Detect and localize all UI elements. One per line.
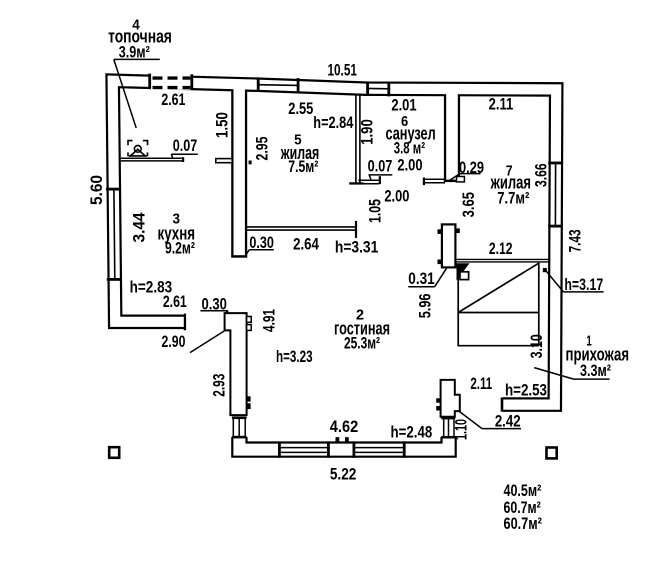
stair start marker (457, 263, 470, 280)
svg-text:0.30: 0.30 (202, 295, 227, 313)
window W1 (top wall, room 5) (257, 77, 300, 92)
svg-text:2.11: 2.11 (470, 375, 492, 393)
dashed opening clear (151, 72, 191, 90)
svg-text:7.7м²: 7.7м² (497, 190, 529, 208)
marker square left (109, 447, 119, 458)
svg-text:2.61: 2.61 (163, 293, 187, 311)
label underline 3.3m2 (574, 378, 610, 380)
stair mid landing line (458, 312, 539, 314)
bottom wall casing (239, 437, 448, 450)
svg-text:0.30: 0.30 (249, 234, 274, 252)
boiler symbol (128, 141, 148, 157)
pier west (0.30 wall, living room west) (225, 313, 247, 415)
svg-text:2.61: 2.61 (161, 91, 185, 109)
svg-text:25.3м²: 25.3м² (344, 334, 380, 352)
stair bottom edge (458, 345, 539, 347)
svg-text:2.55: 2.55 (288, 100, 313, 118)
wc stub 0.07 (358, 176, 381, 184)
wall V1 bottom cap (231, 255, 247, 258)
stair rail double line (456, 258, 548, 260)
marker square right (547, 448, 557, 459)
window W3 (right wall, room 7) (548, 162, 563, 228)
svg-text:3.9м²: 3.9м² (119, 43, 150, 61)
svg-text:0.07: 0.07 (368, 158, 393, 176)
svg-text:7.43: 7.43 (567, 229, 585, 252)
partition P1 end tick (355, 221, 357, 238)
label underline 0.07 kitchen (171, 153, 198, 155)
svg-text:3.10: 3.10 (528, 334, 546, 358)
svg-text:3.65: 3.65 (460, 192, 478, 217)
label underline 0.29 (460, 173, 481, 175)
svg-text:60.7м²: 60.7м² (504, 515, 543, 533)
svg-text:3.3м²: 3.3м² (580, 362, 611, 380)
svg-text:1.10: 1.10 (453, 419, 471, 440)
label underline 0.30 living (200, 310, 228, 312)
label underline 0.30 kitchen (249, 249, 273, 251)
label underline h=3.17 (563, 291, 603, 293)
partition P2 (kitchen/boiler room) (121, 157, 184, 162)
wall V1 casing (kitchen/room5 divider) (231, 84, 247, 256)
label underline 2.42 (482, 428, 521, 430)
window W5 (bottom wall left) (278, 441, 330, 457)
partition P1 (room5 south) (247, 227, 357, 230)
svg-text:4.91: 4.91 (261, 309, 279, 332)
partition wc south (424, 179, 445, 183)
svg-text:h=2.53: h=2.53 (505, 382, 547, 400)
window W4 (left wall, kitchen) (106, 188, 122, 281)
partition V3 bottom tick (349, 182, 363, 184)
svg-text:0.29: 0.29 (459, 159, 484, 177)
partition wc south left cap (423, 178, 425, 186)
label underline 0.31 (408, 286, 434, 288)
pier west upper teeth (247, 317, 252, 323)
wall V1 core (233, 84, 244, 256)
porch door ticks on bottom wall (336, 437, 340, 441)
svg-text:3.8 м²: 3.8 м² (394, 140, 426, 158)
svg-text:3.44: 3.44 (131, 213, 149, 243)
pier stairs (0.31 wall) (442, 224, 456, 267)
svg-text:2.00: 2.00 (397, 156, 422, 174)
wall notch at stair top (543, 268, 547, 272)
dashed opening left cap (148, 74, 151, 88)
stair diagonal (458, 263, 539, 312)
svg-text:2.64: 2.64 (293, 236, 319, 254)
svg-text:40.5м²: 40.5м² (504, 482, 542, 500)
svg-text:5.96: 5.96 (417, 294, 435, 319)
wall V2 casing (wc/room7 divider) (444, 92, 460, 181)
pier stairs teeth (438, 229, 443, 234)
partition V3 (wc west) (356, 94, 360, 185)
svg-text:2.42: 2.42 (495, 413, 521, 431)
outer wall casing (left+top+right+hall-bottom) (113, 81, 557, 405)
svg-text:2.00: 2.00 (384, 187, 409, 205)
stair left edge (457, 264, 459, 347)
svg-text:2.93: 2.93 (211, 374, 229, 397)
label leader 2.90 (190, 331, 225, 353)
svg-text:0.07: 0.07 (173, 137, 198, 155)
svg-text:5.60: 5.60 (88, 175, 106, 205)
pier hall teeth (436, 398, 441, 402)
dashed opening right cap (190, 74, 193, 88)
svg-text:9.2м²: 9.2м² (165, 240, 195, 258)
svg-text:2.11: 2.11 (489, 96, 514, 114)
window W6 (bottom wall right) (353, 441, 406, 457)
svg-text:0.31: 0.31 (408, 270, 434, 288)
label underline 0.07 wc (369, 174, 393, 176)
svg-text:1.90: 1.90 (359, 119, 377, 145)
svg-text:2.01: 2.01 (391, 97, 416, 115)
svg-text:h=2.84: h=2.84 (313, 114, 353, 132)
hall wall end cap (501, 398, 504, 412)
pier hall door (south) (441, 380, 460, 417)
room5 tick on V1 (249, 161, 252, 165)
svg-text:10.51: 10.51 (327, 61, 357, 79)
svg-text:h=3.23: h=3.23 (276, 348, 313, 366)
bottom wall core (239, 437, 448, 450)
svg-text:h=2.48: h=2.48 (391, 424, 433, 442)
window W8 (east, below hall pier) (441, 417, 455, 439)
svg-text:h=3.17: h=3.17 (564, 276, 603, 294)
svg-text:2.12: 2.12 (489, 240, 513, 258)
svg-text:h=3.31: h=3.31 (335, 238, 378, 256)
window W2 (top wall, wc) (366, 81, 390, 96)
svg-text:3.66: 3.66 (533, 163, 551, 187)
kitchen stub at V1 (216, 159, 232, 163)
svg-text:2.90: 2.90 (162, 333, 186, 351)
svg-text:5.22: 5.22 (330, 466, 357, 484)
svg-text:2.95: 2.95 (254, 137, 272, 161)
outer wall core (113, 81, 557, 405)
window W7 (west wall below pier) (232, 417, 247, 439)
wall V2 bottom cap (444, 180, 460, 183)
svg-text:1.05: 1.05 (367, 199, 385, 223)
svg-text:7.5м²: 7.5м² (288, 158, 318, 176)
kitchen south stub end cap (184, 314, 186, 331)
dashed opening (2.61) dashes (153, 76, 191, 89)
wall V2 bottom tooth (457, 177, 465, 182)
stair right edge (538, 263, 540, 346)
svg-text:1.50: 1.50 (214, 112, 232, 138)
label leader 3.9m2 (114, 58, 160, 60)
pier west lower teeth (246, 396, 250, 401)
svg-text:4.62: 4.62 (330, 418, 358, 436)
wall V2 core (446, 92, 458, 181)
